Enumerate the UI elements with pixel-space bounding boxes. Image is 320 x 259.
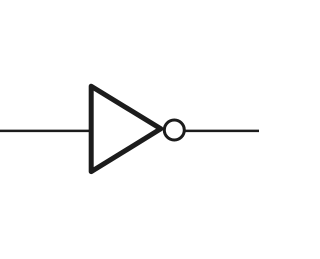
wire input (left) (0, 130, 91, 133)
wire output (right) (185, 130, 262, 133)
inverter U1 triangle (91, 86, 161, 171)
inversion bubble (164, 120, 184, 140)
